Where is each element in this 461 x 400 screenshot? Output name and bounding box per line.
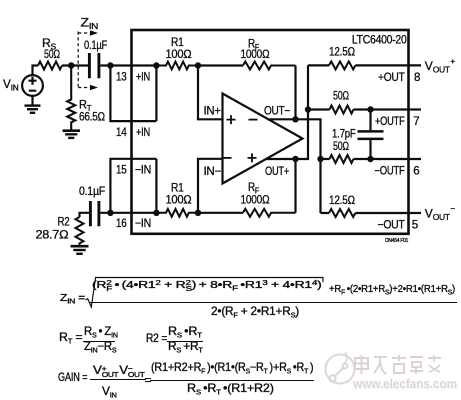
wire +OUTF row (308, 108, 330, 110)
capacitor C2 0.1uF bottom (90, 201, 99, 226)
svg-text:−OUTF: −OUTF (375, 166, 405, 178)
wire 50 top to pin 7 (354, 108, 422, 110)
junction R1 bottom right (195, 210, 201, 216)
wire IN+ feed (198, 66, 223, 120)
label C1 0.1uF (84, 38, 107, 52)
svg-text:6: 6 (413, 166, 419, 178)
label IN- (204, 166, 222, 178)
source VIN (22, 75, 43, 96)
svg-text:1000Ω: 1000Ω (241, 193, 270, 207)
junction at pin13 loop (107, 62, 113, 68)
equation 2 R2 bar (167, 341, 203, 342)
equation 2 RT denominator (84, 340, 116, 353)
ground at R2 (71, 246, 89, 254)
label OUT- (264, 106, 291, 118)
equation 3 equals (145, 374, 152, 387)
junction RF2/OUT+ (292, 156, 298, 162)
wire OUT+ to right column (266, 65, 308, 159)
wire loop to pin 15 (110, 159, 156, 213)
equation 2 RT lhs (59, 331, 82, 344)
wire to RF bottom (198, 212, 243, 214)
resistor RS (38, 62, 62, 70)
wire 50 bottom to pin 6 (354, 158, 422, 160)
equation 2 RT bar (83, 341, 115, 342)
wire +OUT row (308, 64, 329, 66)
pin 16 label (116, 218, 151, 230)
op-amp U1 triangle (223, 94, 303, 184)
svg-text:DN454 F01: DN454 F01 (385, 238, 408, 244)
resistor RT (67, 66, 75, 131)
svg-text:50Ω: 50Ω (333, 139, 349, 153)
svg-text:0.1µF: 0.1µF (79, 184, 105, 198)
resistor 50 top (330, 106, 354, 114)
equation 1 denominator (211, 305, 299, 318)
equation 3 rhs denominator (187, 382, 274, 395)
svg-text:VOUT+: VOUT+ (425, 56, 455, 74)
wire cap2 to R2 (80, 213, 90, 217)
resistor R2 (76, 217, 84, 246)
wire to RF top (198, 64, 243, 66)
wire 12.5 bottom to VOUT- (355, 212, 421, 214)
equation 2 R2 lhs (146, 332, 167, 345)
svg-text:IN+: IN+ (204, 106, 222, 118)
svg-text:ZIN: ZIN (81, 16, 99, 32)
wire cap to pin 13 (100, 64, 156, 66)
label 12.5 bottom (329, 193, 355, 207)
pin 14 label (116, 127, 150, 139)
svg-text:R2: R2 (58, 215, 71, 229)
equation 2 R2 denominator (168, 340, 203, 353)
equation 3 rhs numerator (151, 361, 313, 374)
wire VIN to RS (33, 66, 39, 76)
svg-text:IN−: IN− (204, 166, 222, 178)
equation 2 RT numerator (84, 325, 118, 338)
svg-text:50Ω: 50Ω (44, 47, 60, 61)
svg-text:LTC6400-20: LTC6400-20 (352, 35, 407, 47)
svg-text:100Ω: 100Ω (166, 47, 192, 61)
resistor 12.5 top (329, 61, 355, 69)
opamp output - mark (249, 119, 258, 121)
svg-text:8: 8 (414, 72, 420, 84)
wire -OUT row (321, 212, 330, 214)
label ZIN (81, 16, 99, 32)
wire inside joining pins 15-16 (155, 159, 157, 213)
wire 12.5 top to VOUT+ (355, 64, 421, 66)
junction cap 1.7pF bottom (367, 156, 373, 162)
equation 1 fraction bar (89, 302, 457, 303)
capacitor C1 0.1uF (89, 53, 99, 78)
wire loop to pin 14 (110, 66, 156, 122)
label 50 top (333, 89, 349, 103)
wire RS to cap C1 (62, 64, 88, 66)
svg-text:−IN: −IN (135, 165, 151, 177)
svg-text:+IN: +IN (136, 127, 150, 139)
resistor 50 bottom (330, 155, 354, 163)
svg-text:12.5Ω: 12.5Ω (329, 193, 355, 207)
svg-text:+IN: +IN (136, 72, 150, 84)
svg-text:16: 16 (116, 218, 127, 230)
junction R1 bottom left (153, 210, 159, 216)
svg-text:0.1µF: 0.1µF (84, 38, 107, 52)
pin 8 label (378, 72, 420, 84)
svg-text:OUT+: OUT+ (265, 166, 289, 178)
label R1 100 top (166, 35, 192, 61)
label R1 100 bottom (166, 181, 192, 207)
resistor RF bottom (243, 209, 296, 217)
label RF 1000 top (241, 37, 270, 62)
capacitor 1.7pF (358, 110, 384, 160)
svg-text:14: 14 (116, 127, 127, 139)
svg-text:13: 13 (116, 72, 127, 84)
svg-text:+OUTF: +OUTF (375, 116, 405, 128)
wire OUT- to right column (267, 119, 320, 213)
resistor R1 bottom (156, 209, 198, 217)
pin 6 label (375, 166, 420, 178)
junction cap 1.7pF top (367, 106, 373, 112)
svg-text:1000Ω: 1000Ω (241, 47, 270, 61)
svg-text:5: 5 (412, 219, 418, 231)
svg-text:VOUT−: VOUT− (425, 204, 455, 222)
label OUT+ (265, 166, 289, 178)
label RS 50 (42, 36, 60, 61)
svg-text:−IN: −IN (135, 218, 151, 230)
label VIN (3, 77, 19, 93)
equation 3 GAIN lhs (58, 371, 87, 384)
label LTC6400-20 (352, 35, 407, 47)
resistor 12.5 bottom (329, 209, 355, 217)
IC box LTC6400-20 (132, 30, 409, 234)
equation 1 numerator outside sqrt (329, 283, 455, 296)
svg-text:15: 15 (116, 165, 127, 177)
ZIN arrowheads (90, 30, 98, 90)
resistor R1 top (156, 62, 198, 70)
label R2 28.7 (36, 215, 71, 242)
equation 2 R2 numerator (168, 325, 202, 338)
label 1.7pF 50 (332, 127, 356, 154)
wire RF bottom up to OUT+ (294, 159, 296, 213)
junction OUT+ to 50 top (305, 106, 311, 112)
opamp output + mark bottom (248, 153, 257, 162)
svg-text:50Ω: 50Ω (333, 89, 349, 103)
svg-text:28.7Ω: 28.7Ω (36, 228, 69, 242)
opamp input - mark bottom (223, 157, 232, 159)
pin 7 label (375, 116, 419, 128)
junction RF/OUT- (292, 116, 298, 122)
equation 1 ZIN lhs (60, 292, 85, 305)
wire IN- feed (198, 159, 223, 213)
svg-text:−OUT: −OUT (378, 219, 405, 231)
pin 15 label (116, 165, 151, 177)
svg-text:12.5Ω: 12.5Ω (329, 45, 355, 59)
equation 3 gain denominator (102, 385, 116, 398)
label 12.5 top (329, 45, 355, 59)
svg-text:100Ω: 100Ω (166, 193, 192, 207)
opamp input + mark (227, 115, 236, 124)
pin 5 label (378, 219, 418, 231)
svg-text:7: 7 (413, 116, 419, 128)
watermark chinese glyph blocks (355, 355, 441, 374)
resistor RF top (243, 62, 296, 70)
ground at VIN (25, 96, 41, 113)
node A junction (68, 62, 74, 68)
pin 13 label (116, 72, 150, 84)
svg-text:+OUT: +OUT (378, 72, 405, 84)
junction OUT- to 50 bottom (317, 156, 323, 162)
ZIN dashed marker (78, 32, 90, 88)
svg-text:OUT−: OUT− (264, 106, 291, 118)
label RT 66.5 (79, 98, 105, 124)
equation 3 rhs bar (150, 380, 314, 381)
wire cap2 to pin 16 (100, 212, 156, 214)
equation 1 numerator inside sqrt (92, 279, 321, 295)
svg-text:66.5Ω: 66.5Ω (79, 110, 105, 124)
equation 3 gain bar (90, 379, 146, 380)
junction R1 right (195, 62, 201, 68)
label VOUT+ (425, 56, 455, 74)
label C2 0.1uF (79, 184, 105, 198)
svg-text:VIN: VIN (3, 77, 19, 93)
wire inside joining pins 13-14 (155, 66, 157, 122)
label RF 1000 bottom (241, 180, 270, 207)
ground at RT (63, 131, 81, 138)
label VOUT- (425, 204, 455, 222)
junction pin16 loop (107, 210, 113, 216)
wire -OUTF row (321, 158, 330, 160)
wire RF top down to OUT- (294, 66, 296, 120)
label IN+ (204, 106, 222, 118)
junction R1 left (153, 62, 159, 68)
watermark url text (353, 377, 457, 391)
equation 3 gain numerator (93, 364, 144, 381)
label DN454 F01 (385, 238, 408, 244)
